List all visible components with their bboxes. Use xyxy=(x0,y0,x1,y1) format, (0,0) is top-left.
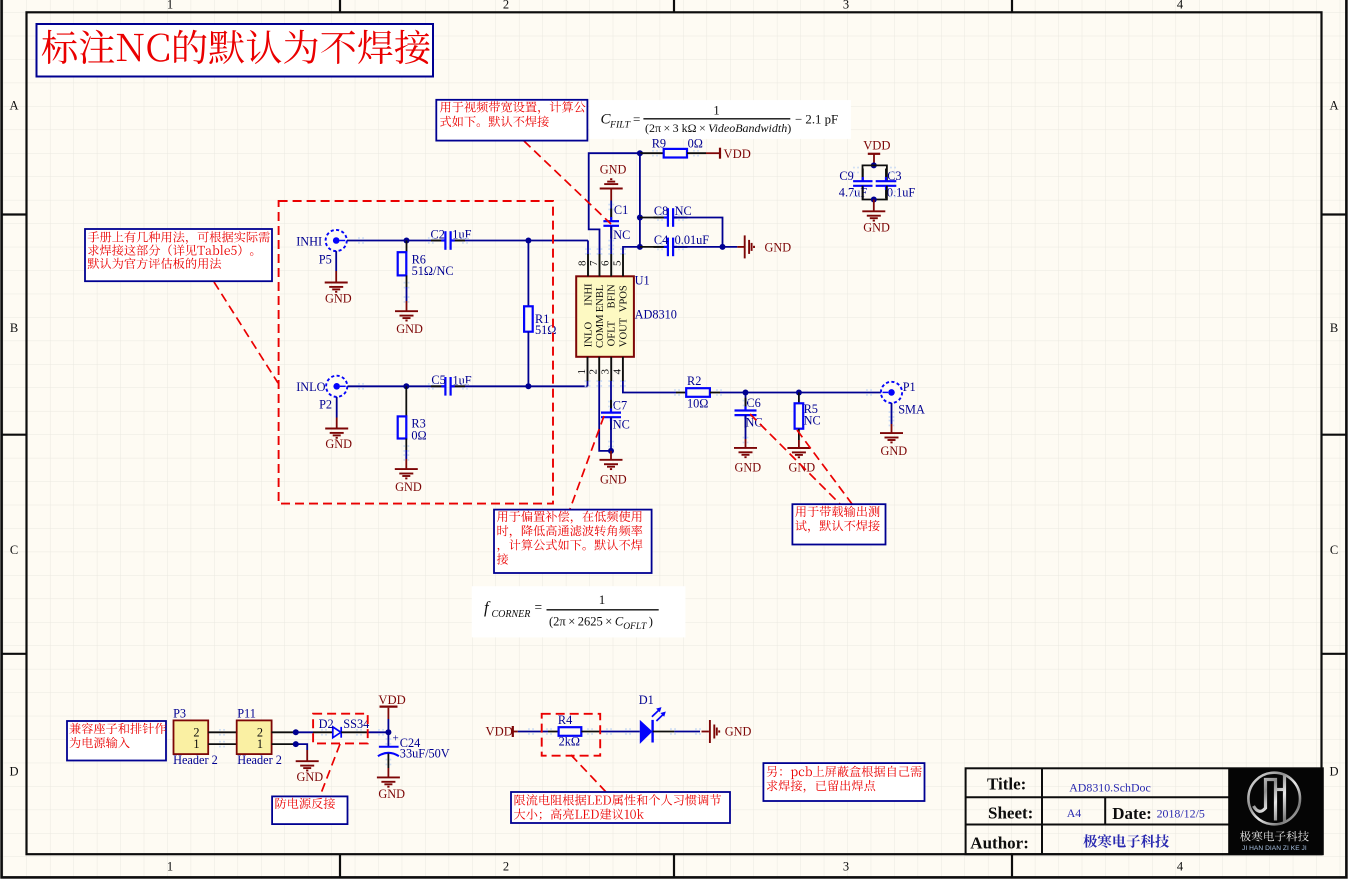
svg-text:C7: C7 xyxy=(613,399,627,413)
wire P5 to ground xyxy=(335,251,337,271)
wire C6 to ground xyxy=(745,415,747,439)
capacitor C24 (polarized) xyxy=(378,747,399,757)
wire into pin 8 xyxy=(587,241,589,255)
wire R4 to LED xyxy=(581,731,600,733)
leader line C7 to offset note xyxy=(570,416,604,509)
svg-text:− 2.1 pF: − 2.1 pF xyxy=(795,113,838,127)
svg-text:VDD: VDD xyxy=(378,693,405,707)
resistor R9 xyxy=(664,149,687,158)
ground below C9/C3 xyxy=(862,211,885,220)
svg-text:R2: R2 xyxy=(687,374,701,388)
power VDD right of R9 xyxy=(719,148,721,159)
ground right of D1 xyxy=(710,720,719,743)
ground below P2 xyxy=(325,429,348,438)
wire R2 right lead xyxy=(710,392,720,394)
junction INLO/R3 xyxy=(403,383,409,389)
leader line D2 to note xyxy=(320,744,340,796)
op-amp/log-amp U1 AD8310 body xyxy=(576,276,634,357)
note box: power input xyxy=(67,721,166,761)
svg-text:GND: GND xyxy=(765,241,792,255)
dashed box input network xyxy=(279,201,553,504)
svg-text:CORNER: CORNER xyxy=(492,609,531,620)
wire R3 to ground xyxy=(405,439,407,451)
svg-text:GND: GND xyxy=(396,322,423,336)
svg-text:3: 3 xyxy=(843,0,849,12)
note box: loaded output test xyxy=(792,504,885,544)
svg-text:51Ω/NC: 51Ω/NC xyxy=(412,264,454,278)
svg-text:C4: C4 xyxy=(654,233,668,247)
svg-text:GND: GND xyxy=(600,472,627,486)
LED D1 xyxy=(640,707,666,744)
svg-text:D: D xyxy=(9,765,18,779)
svg-text:SS34: SS34 xyxy=(343,717,369,731)
capacitor C3 xyxy=(876,177,897,190)
svg-text:VOUT: VOUT xyxy=(618,317,629,347)
svg-text:=: = xyxy=(633,112,640,127)
wire C9/C3 bottom rail xyxy=(863,186,887,200)
svg-text:GND: GND xyxy=(735,461,762,475)
junction OFLT ground node xyxy=(608,448,614,454)
svg-text:+: + xyxy=(393,733,399,745)
wire C7 to ground node xyxy=(610,417,612,451)
wire C9/C3 top rail xyxy=(863,165,887,181)
svg-text:GND: GND xyxy=(378,787,405,801)
junction VDD node xyxy=(385,729,391,735)
ground below R3 xyxy=(395,469,418,478)
svg-text:2: 2 xyxy=(503,860,509,874)
svg-text:GND: GND xyxy=(325,292,352,306)
svg-text:=: = xyxy=(535,600,543,615)
wire INLO rail left xyxy=(348,385,445,387)
svg-text:VDD: VDD xyxy=(863,139,890,153)
ground below C24 xyxy=(377,777,400,786)
ground right of C4 xyxy=(745,235,754,258)
diode D2 SS34 xyxy=(333,727,341,738)
leader line R5 to load note xyxy=(797,430,852,504)
wire gnd to C1 xyxy=(610,189,612,201)
capacitor C5 xyxy=(441,377,455,396)
junction C8/C4 xyxy=(720,244,726,250)
svg-text:SMA: SMA xyxy=(898,402,925,416)
svg-text:VPOS: VPOS xyxy=(618,285,629,312)
leader line C6 to load note xyxy=(750,414,840,504)
svg-text:VDD: VDD xyxy=(724,147,751,161)
svg-text:P2: P2 xyxy=(319,397,332,411)
capacitor C8 xyxy=(664,208,678,227)
svg-text:GND: GND xyxy=(325,437,352,451)
svg-text:10Ω: 10Ω xyxy=(687,396,708,410)
wire C4 right lead xyxy=(674,246,738,248)
wire C4 left lead xyxy=(640,246,668,248)
svg-text:GND: GND xyxy=(863,221,890,235)
svg-text:8: 8 xyxy=(577,260,589,266)
svg-text:2: 2 xyxy=(588,369,600,375)
svg-text:1: 1 xyxy=(193,737,199,751)
wire COMM pin2 to ground node xyxy=(599,381,611,451)
svg-text:1: 1 xyxy=(576,369,588,375)
wire LED to ground xyxy=(653,731,675,733)
svg-text:C: C xyxy=(10,543,18,557)
svg-text:OFLT: OFLT xyxy=(607,320,618,346)
svg-text:C5: C5 xyxy=(431,373,445,387)
note box: reverse polarity xyxy=(272,796,347,824)
resistor R2 xyxy=(686,388,710,397)
svg-text:B: B xyxy=(1330,321,1338,335)
junction VIN xyxy=(293,729,299,735)
wire R3 top lead xyxy=(405,386,407,416)
wire VOUT pin4 to R2 xyxy=(623,381,676,393)
wire ENBL to supply rail xyxy=(589,153,640,254)
dashed box around D2 xyxy=(313,714,368,744)
resistor R6 xyxy=(398,252,407,275)
capacitor C2 xyxy=(441,231,455,250)
svg-text:D: D xyxy=(1329,765,1338,779)
svg-text:1: 1 xyxy=(257,737,263,751)
svg-text:GND: GND xyxy=(600,162,627,176)
svg-text:C1: C1 xyxy=(614,203,628,217)
header P11 xyxy=(237,720,272,754)
wire INHI rail left xyxy=(347,240,445,242)
connector P1 xyxy=(881,382,902,403)
ground power input xyxy=(296,761,319,770)
svg-text:2: 2 xyxy=(503,0,509,12)
junction C8 tap xyxy=(637,215,643,221)
wire C24 to ground xyxy=(387,754,389,769)
svg-text:Date:: Date: xyxy=(1112,804,1152,823)
svg-text:(2π × 3 kΩ × VideoBandwidth): (2π × 3 kΩ × VideoBandwidth) xyxy=(645,121,791,135)
svg-text:NC: NC xyxy=(675,204,692,218)
junction INLO/R1 xyxy=(525,383,531,389)
wire VPOS rail into pin 5 xyxy=(623,247,640,254)
svg-text:1uF: 1uF xyxy=(453,373,472,387)
power VDD above C9/C3 xyxy=(868,153,880,155)
svg-text:AD8310: AD8310 xyxy=(635,308,677,322)
wire R1 lower lead xyxy=(527,332,529,387)
note box: LED resistor xyxy=(511,792,730,823)
svg-text:GND: GND xyxy=(725,724,752,738)
P3 pin wires xyxy=(208,731,237,733)
svg-text:GND: GND xyxy=(395,480,422,494)
svg-text:P3: P3 xyxy=(173,706,186,720)
junction VPOS rail top xyxy=(637,150,643,156)
wire VDD to R4 xyxy=(513,731,518,733)
note box: NC means not soldered xyxy=(37,24,434,77)
ground below C6 xyxy=(734,448,757,457)
pin-end compile markers xyxy=(428,237,434,244)
svg-text:4: 4 xyxy=(611,369,623,375)
junction C6 tap xyxy=(743,390,749,396)
svg-text:Header 2: Header 2 xyxy=(173,753,218,767)
note box: video bandwidth xyxy=(436,100,587,141)
svg-text:C2: C2 xyxy=(431,227,445,241)
header P3 xyxy=(174,720,209,754)
svg-text:INLO: INLO xyxy=(296,380,325,394)
svg-text:1: 1 xyxy=(167,860,173,874)
wire ground stem xyxy=(610,451,612,460)
svg-text:3: 3 xyxy=(600,369,612,375)
resistor R4 xyxy=(559,727,582,736)
ground below C7 xyxy=(600,460,623,469)
note box: offset compensation xyxy=(494,510,652,573)
dashed box around R4 xyxy=(542,714,601,756)
svg-text:C8: C8 xyxy=(654,204,668,218)
svg-text:D2: D2 xyxy=(319,717,334,731)
capacitor C9 xyxy=(853,177,872,190)
wire pin1 to ground xyxy=(296,744,307,750)
svg-text:BFIN: BFIN xyxy=(607,284,618,308)
leader line to C1 xyxy=(524,141,611,224)
junction C4 tap xyxy=(637,244,643,250)
svg-text:INLO: INLO xyxy=(584,322,595,348)
svg-text:6: 6 xyxy=(600,260,612,266)
wire R6 to ground xyxy=(406,275,408,287)
svg-text:JI HAN DIAN ZI KE JI: JI HAN DIAN ZI KE JI xyxy=(1242,845,1307,852)
P11 pin wires xyxy=(272,731,296,733)
wire R9 to VDD xyxy=(687,152,706,154)
wire C6 top lead xyxy=(745,393,747,411)
U1 pins bottom (1,2,3,4) xyxy=(587,357,589,381)
svg-text:COMM: COMM xyxy=(595,314,606,348)
wire C8 left lead xyxy=(640,217,668,219)
svg-text:A: A xyxy=(1329,98,1338,112)
wire R5 to ground xyxy=(798,429,800,440)
junction C9/C3 top xyxy=(871,162,877,168)
svg-text:AD8310.SchDoc: AD8310.SchDoc xyxy=(1069,781,1151,795)
wire to right ground xyxy=(737,246,744,248)
svg-text:4: 4 xyxy=(1177,860,1184,874)
resistor R1 xyxy=(524,306,533,331)
leader line R4 to note xyxy=(571,755,607,793)
wire into pin 1 xyxy=(587,381,589,386)
junction R5 tap xyxy=(796,390,802,396)
svg-text:1: 1 xyxy=(713,104,719,118)
junction C9/C3 bottom xyxy=(871,197,877,203)
wire R6 top lead xyxy=(406,241,408,253)
connector P5 xyxy=(326,230,347,251)
svg-text:U1: U1 xyxy=(635,274,650,288)
svg-text:Header 2: Header 2 xyxy=(237,753,282,767)
svg-text:0Ω: 0Ω xyxy=(411,428,426,442)
wire OFLT pin3 to C7 xyxy=(610,381,612,411)
svg-text:B: B xyxy=(10,321,18,335)
svg-text:P11: P11 xyxy=(237,706,256,720)
ground symbol above C1 xyxy=(600,179,623,188)
svg-text:GND: GND xyxy=(881,444,908,458)
svg-text:NC: NC xyxy=(804,414,821,428)
junction INHI/R1 xyxy=(525,238,531,244)
wire VOUT rail to P1 xyxy=(720,392,881,394)
wire P2 to ground xyxy=(336,397,338,418)
svg-text:P5: P5 xyxy=(319,252,332,266)
wire VDD stem xyxy=(873,154,875,166)
note box: pcb shield xyxy=(763,763,924,801)
svg-text:Sheet:: Sheet: xyxy=(988,803,1033,822)
svg-text:1: 1 xyxy=(167,0,173,12)
svg-text:3: 3 xyxy=(843,860,849,874)
resistor R3 xyxy=(398,416,407,438)
wire VDD stem xyxy=(387,719,389,732)
svg-text:INHI: INHI xyxy=(296,234,322,248)
svg-text:33uF/50V: 33uF/50V xyxy=(400,746,450,760)
svg-text:C6: C6 xyxy=(746,396,760,410)
svg-text:1uF: 1uF xyxy=(452,227,471,241)
svg-text:2kΩ: 2kΩ xyxy=(559,734,580,748)
svg-text:5: 5 xyxy=(612,260,624,266)
svg-text:C9: C9 xyxy=(839,169,853,183)
svg-text:NC: NC xyxy=(613,417,630,431)
title block table xyxy=(966,768,1323,854)
svg-text:A4: A4 xyxy=(1067,806,1082,820)
company logo xyxy=(1228,768,1323,854)
wire INHI rail right xyxy=(451,240,588,242)
wire to ground xyxy=(873,200,875,212)
svg-text:VDD: VDD xyxy=(486,724,513,738)
wire P1 to ground xyxy=(891,403,893,424)
power VDD above D2 xyxy=(380,705,398,707)
ground below R6 xyxy=(395,311,418,320)
svg-text:4: 4 xyxy=(1177,0,1184,12)
capacitor C6 xyxy=(735,406,757,419)
svg-text:C3: C3 xyxy=(887,169,901,183)
U1 pins top (8,7,6,5) xyxy=(587,254,589,276)
svg-text:C: C xyxy=(1330,543,1338,557)
wire D2 to VDD node xyxy=(341,731,368,733)
ground below P5 xyxy=(325,283,348,292)
formula CFILT background xyxy=(590,100,851,139)
junction INHI/R6 xyxy=(404,238,410,244)
capacitor C1 xyxy=(603,217,619,230)
logo chinese text xyxy=(1240,831,1309,842)
svg-text:A: A xyxy=(9,98,18,112)
wire R9 left lead xyxy=(640,152,664,154)
ground below R5 xyxy=(787,448,810,457)
svg-text:1: 1 xyxy=(599,592,606,607)
wire to C24 xyxy=(387,732,389,746)
svg-text:Author:: Author: xyxy=(970,834,1029,853)
resistor R5 xyxy=(795,403,804,428)
wire R5 top lead xyxy=(798,393,800,404)
svg-text:7: 7 xyxy=(588,260,600,266)
capacitor C4 xyxy=(664,238,678,257)
svg-text:2018/12/5: 2018/12/5 xyxy=(1157,807,1205,821)
svg-text:D1: D1 xyxy=(639,693,654,707)
wire VPOS vertical rail xyxy=(639,153,641,247)
wire C8 right to C4 node xyxy=(674,218,723,247)
wire R1 upper lead xyxy=(527,241,529,307)
wire VIN to diode D2 xyxy=(296,731,313,733)
junction GND in xyxy=(293,741,299,747)
svg-text:R4: R4 xyxy=(558,713,572,727)
svg-text:0.01uF: 0.01uF xyxy=(675,233,710,247)
formula fCORNER background xyxy=(472,586,686,637)
svg-text:P1: P1 xyxy=(903,380,916,394)
power VDD at R4 xyxy=(512,726,514,737)
svg-text:NC: NC xyxy=(613,228,630,242)
wire C1 to pin 6 xyxy=(610,226,612,254)
capacitor C7 xyxy=(601,408,621,421)
connector P2 xyxy=(326,376,347,397)
svg-text:GND: GND xyxy=(789,461,816,475)
note box: manual usage xyxy=(85,229,272,281)
svg-text:Title:: Title: xyxy=(987,775,1026,794)
svg-text:INHI: INHI xyxy=(584,283,595,306)
Author value xyxy=(1083,834,1169,848)
svg-text:GND: GND xyxy=(297,770,324,784)
wire INLO rail right xyxy=(451,385,588,387)
svg-text:ENBL: ENBL xyxy=(595,285,606,313)
leader line from manual-note box xyxy=(214,282,278,383)
svg-text:FILT: FILT xyxy=(609,120,631,131)
ground below P1 xyxy=(880,433,903,442)
border ticks xyxy=(339,0,341,12)
